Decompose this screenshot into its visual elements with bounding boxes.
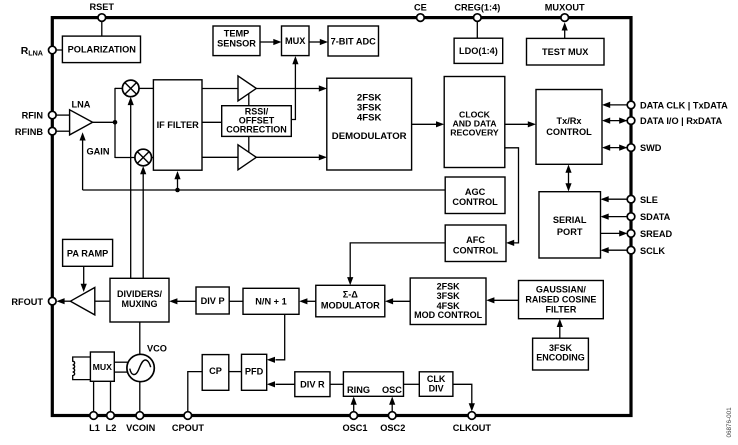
svg-text:4FSK: 4FSK bbox=[357, 113, 382, 124]
box MUX U2 bbox=[282, 26, 310, 56]
pin RFIN bbox=[22, 111, 57, 121]
svg-text:MOD CONTROL: MOD CONTROL bbox=[414, 310, 482, 320]
svg-text:7-BIT ADC: 7-BIT ADC bbox=[331, 36, 376, 46]
svg-text:ENCODING: ENCODING bbox=[536, 353, 585, 363]
amplifier LNA bbox=[70, 110, 93, 135]
pin RFINB bbox=[15, 127, 56, 137]
wire sigma-delta to N/N+1 bbox=[307, 300, 316, 302]
svg-text:Tx/Rx: Tx/Rx bbox=[556, 116, 582, 126]
wire SLE pin to SERIAL PORT bbox=[602, 198, 628, 200]
pin L2 bbox=[106, 412, 117, 433]
svg-text:Σ-Δ: Σ-Δ bbox=[343, 290, 359, 300]
pin MUXOUT bbox=[545, 3, 585, 22]
wire RLNA to POLARIZATION bbox=[56, 49, 63, 51]
svg-text:PA RAMP: PA RAMP bbox=[67, 248, 108, 258]
pin OSC2 bbox=[380, 412, 405, 433]
pin RLNA bbox=[21, 46, 56, 58]
pin SLE bbox=[627, 195, 658, 205]
pin CLKOUT bbox=[453, 412, 492, 433]
wire RING OSC to CLK DIV bbox=[404, 383, 420, 385]
svg-text:OSC1: OSC1 bbox=[342, 423, 367, 433]
box 3FSK ENCODING bbox=[533, 338, 589, 370]
pin SCLK bbox=[627, 246, 665, 256]
node AGC line junction bbox=[175, 188, 180, 193]
svg-text:AFC: AFC bbox=[466, 235, 485, 245]
svg-text:DATA I/O | RxDATA: DATA I/O | RxDATA bbox=[640, 116, 723, 126]
svg-text:RSET: RSET bbox=[90, 2, 115, 12]
wire DIVIDERS/MUXING to PA bbox=[95, 300, 110, 302]
wire VCO to DIVIDERS/MUXING bbox=[139, 322, 141, 354]
pin SDATA bbox=[627, 212, 670, 222]
svg-text:DIV: DIV bbox=[429, 383, 444, 393]
pin CPOUT bbox=[172, 412, 205, 433]
svg-text:SWD: SWD bbox=[640, 143, 662, 153]
wire TEMP SENSOR to MUX bbox=[260, 41, 275, 43]
amplifier A2 limiter bbox=[238, 145, 256, 170]
svg-text:CREG(1:4): CREG(1:4) bbox=[454, 3, 500, 13]
box RING OSC bbox=[343, 372, 403, 397]
wire TEST MUX to MUXOUT bbox=[564, 30, 566, 38]
svg-text:L1: L1 bbox=[89, 423, 100, 433]
svg-text:DIV R: DIV R bbox=[300, 380, 325, 390]
svg-text:SDATA: SDATA bbox=[640, 212, 671, 222]
box AFC CONTROL bbox=[445, 225, 506, 262]
wire PFD to CP bbox=[229, 371, 242, 373]
wire mixer M1 to IF FILTER bbox=[139, 87, 154, 89]
box N/N + 1 bbox=[243, 288, 299, 314]
pin CREG(1:4) bbox=[454, 3, 500, 22]
wire LO to mixer M2 bbox=[142, 173, 144, 279]
svg-text:DEMODULATOR: DEMODULATOR bbox=[332, 131, 407, 142]
box POLARIZATION bbox=[62, 36, 140, 63]
svg-text:RFINB: RFINB bbox=[15, 127, 43, 137]
pin VCOIN bbox=[126, 412, 155, 433]
wire RFINB to LNA bbox=[56, 130, 70, 132]
wire Tx/Rx CONTROL to SERIAL PORT bbox=[568, 170, 570, 186]
pin DATA I/O | RxDATA bbox=[627, 116, 722, 126]
svg-text:SCLK: SCLK bbox=[640, 246, 665, 256]
wire DIV R to PFD bbox=[276, 383, 295, 385]
svg-text:SENSOR: SENSOR bbox=[217, 39, 256, 49]
svg-text:MUX: MUX bbox=[285, 36, 306, 46]
wire OSC1 to RING OSC bbox=[353, 404, 355, 412]
oscillator VCO bbox=[127, 354, 154, 381]
wire limiter A2 to DEMODULATOR bbox=[256, 156, 319, 158]
box 2FSK 3FSK 4FSK MOD CONTROL bbox=[410, 278, 486, 325]
svg-text:CONTROL: CONTROL bbox=[452, 197, 498, 207]
svg-text:MUXING: MUXING bbox=[122, 299, 158, 309]
amplifier PA bbox=[70, 288, 94, 315]
svg-text:OSC: OSC bbox=[382, 385, 402, 395]
wire RSSI to limiter A1 bbox=[248, 94, 250, 107]
svg-text:GAUSSIAN/: GAUSSIAN/ bbox=[536, 284, 587, 294]
svg-text:VCOIN: VCOIN bbox=[126, 423, 155, 433]
wire L1 to MUX bbox=[93, 381, 95, 411]
wire DEMODULATOR to CLOCK AND DATA RECOVERY bbox=[412, 123, 438, 125]
pin RSET bbox=[90, 2, 115, 21]
wire PA RAMP to PA bbox=[83, 266, 85, 284]
wire DIV P to DIVIDERS/MUXING bbox=[177, 300, 196, 302]
pin L1 bbox=[89, 412, 100, 433]
wire RSSI to MUX bbox=[291, 63, 295, 120]
svg-text:CORRECTION: CORRECTION bbox=[226, 124, 287, 134]
box DIV R bbox=[295, 372, 330, 397]
svg-text:POLARIZATION: POLARIZATION bbox=[68, 45, 137, 55]
svg-text:SREAD: SREAD bbox=[640, 229, 673, 239]
svg-text:06876-001: 06876-001 bbox=[726, 407, 733, 438]
wire AGC to LNA gain bbox=[82, 140, 84, 190]
wire RFIN to LNA bbox=[56, 114, 70, 116]
wire DIV R to RING OSC bbox=[330, 383, 343, 385]
box TEMP SENSOR bbox=[213, 26, 260, 56]
wire MUX to VCO upper bbox=[114, 361, 127, 363]
box CLK DIV bbox=[419, 372, 453, 397]
pin RFOUT bbox=[11, 297, 56, 307]
wire IF FILTER to RSSI bbox=[202, 121, 222, 123]
box RSSI/OFFSET CORRECTION bbox=[222, 106, 292, 137]
svg-text:MUXOUT: MUXOUT bbox=[545, 3, 585, 13]
box DIVIDERS/MUXING bbox=[110, 278, 169, 322]
wire AGC CONTROL feedback line bbox=[83, 189, 446, 191]
wire AGC to IF FILTER bbox=[177, 179, 179, 191]
box AGC CONTROL bbox=[445, 177, 505, 214]
wire CLK DIV to CLKOUT bbox=[453, 384, 472, 404]
box GAUSSIAN/RAISED COSINE FILTER bbox=[519, 281, 604, 319]
svg-text:RLNA: RLNA bbox=[21, 46, 43, 58]
svg-text:MODULATOR: MODULATOR bbox=[321, 300, 380, 310]
svg-text:CPOUT: CPOUT bbox=[172, 423, 205, 433]
wire to mixer M2 bbox=[115, 157, 136, 159]
wire N/N+1 to PFD bbox=[276, 314, 285, 360]
wire SCLK pin to SERIAL PORT bbox=[602, 249, 628, 251]
pin CE bbox=[414, 3, 427, 22]
svg-text:CE: CE bbox=[414, 3, 427, 13]
svg-text:CONTROL: CONTROL bbox=[546, 127, 592, 137]
svg-text:CONTROL: CONTROL bbox=[453, 246, 499, 256]
wire SERIAL PORT to SREAD pin bbox=[601, 232, 621, 234]
wire VCOIN to VCO bbox=[139, 382, 141, 412]
svg-text:TEMP: TEMP bbox=[224, 29, 250, 39]
svg-text:RAISED COSINE: RAISED COSINE bbox=[525, 294, 596, 304]
svg-text:3FSK: 3FSK bbox=[549, 343, 573, 353]
wire 3FSK ENCODING to GAUSSIAN FILTER bbox=[559, 327, 561, 338]
mixer M2 bbox=[135, 149, 152, 166]
wire CREG to LDO bbox=[476, 22, 478, 39]
box PFD bbox=[242, 354, 267, 390]
box TEST MUX bbox=[527, 38, 605, 65]
svg-text:SLE: SLE bbox=[640, 195, 658, 205]
wire MOD CONTROL to sigma-delta bbox=[393, 300, 410, 302]
box SERIAL PORT bbox=[539, 192, 601, 258]
wire AFC CONTROL to sigma-delta modulator bbox=[350, 243, 445, 279]
svg-text:CP: CP bbox=[209, 366, 222, 376]
wire CP to CPOUT bbox=[188, 372, 202, 412]
wire Tx/Rx to DATA CLK pin bbox=[604, 104, 628, 106]
box 7-BIT ADC bbox=[328, 26, 379, 56]
svg-text:DATA CLK | TxDATA: DATA CLK | TxDATA bbox=[640, 100, 728, 110]
svg-text:RFOUT: RFOUT bbox=[11, 297, 43, 307]
amplifier A1 limiter bbox=[238, 76, 256, 101]
wire CLOCK AND DATA RECOVERY to AFC CONTROL bbox=[505, 148, 519, 243]
svg-text:DIV P: DIV P bbox=[201, 296, 225, 306]
wire node vertical to mixers bbox=[114, 88, 116, 158]
pin SREAD bbox=[627, 229, 672, 239]
svg-text:AGC: AGC bbox=[465, 187, 486, 197]
wire to mixer M1 bbox=[115, 87, 123, 89]
wire SDATA pin to SERIAL PORT bbox=[602, 216, 628, 218]
wire RSSI to limiter A2 bbox=[248, 136, 250, 152]
svg-text:RECOVERY: RECOVERY bbox=[450, 127, 499, 137]
wire GAUSSIAN FILTER to MOD CONTROL bbox=[494, 299, 519, 301]
wire L2 to MUX bbox=[110, 381, 112, 411]
svg-text:OSC2: OSC2 bbox=[380, 423, 405, 433]
box DEMODULATOR bbox=[327, 78, 412, 170]
box CLOCK AND DATA RECOVERY bbox=[444, 77, 505, 168]
svg-text:MUX: MUX bbox=[93, 362, 113, 372]
inductor tank coil bbox=[73, 357, 91, 380]
svg-text:DIVIDERS/: DIVIDERS/ bbox=[117, 289, 163, 299]
node LNA output junction bbox=[113, 120, 118, 125]
svg-text:CLK: CLK bbox=[427, 374, 446, 384]
wire mixer M2 to IF FILTER bbox=[151, 157, 154, 159]
pin SWD bbox=[627, 143, 662, 153]
wire limiter A1 to DEMODULATOR bbox=[256, 88, 319, 90]
svg-text:TEST MUX: TEST MUX bbox=[542, 47, 589, 57]
box DIV P bbox=[196, 287, 229, 314]
wire IF FILTER to limiter A2 bbox=[202, 156, 238, 158]
svg-text:PORT: PORT bbox=[557, 227, 583, 237]
svg-text:LNA: LNA bbox=[72, 99, 91, 109]
box PA RAMP bbox=[63, 239, 113, 266]
svg-text:N/N + 1: N/N + 1 bbox=[255, 297, 286, 307]
svg-text:IF FILTER: IF FILTER bbox=[157, 120, 200, 130]
svg-text:L2: L2 bbox=[106, 423, 117, 433]
wire Tx/Rx to DATA I/O pin bbox=[604, 120, 628, 122]
svg-text:VCO: VCO bbox=[147, 344, 167, 354]
svg-text:CLKOUT: CLKOUT bbox=[453, 423, 492, 433]
pin DATA CLK | TxDATA bbox=[627, 100, 728, 110]
wire Tx/Rx to SWD pin bbox=[604, 147, 628, 149]
wire CLOCK AND DATA RECOVERY to Tx/Rx CONTROL bbox=[505, 123, 530, 125]
box Tx/Rx CONTROL bbox=[536, 90, 602, 165]
box CP charge pump bbox=[202, 355, 229, 391]
wire OSC2 to RING OSC bbox=[391, 404, 393, 412]
wire MUX to 7-BIT ADC bbox=[309, 41, 321, 43]
wire LNA output to node bbox=[93, 121, 115, 123]
svg-text:FILTER: FILTER bbox=[545, 304, 576, 314]
wire N/N+1 to DIV P bbox=[229, 300, 243, 302]
box MUX U3 tank select bbox=[90, 352, 114, 381]
wire IF FILTER to limiter A1 bbox=[202, 88, 238, 90]
svg-text:LDO(1:4): LDO(1:4) bbox=[459, 46, 498, 56]
chip outer border bbox=[52, 18, 631, 416]
pin OSC1 bbox=[342, 412, 367, 433]
box LDO(1:4) bbox=[454, 38, 503, 63]
mixer M1 bbox=[122, 80, 139, 97]
wire PA to RFOUT bbox=[64, 300, 71, 302]
svg-text:RFIN: RFIN bbox=[22, 111, 44, 121]
box IF FILTER bbox=[153, 80, 202, 170]
svg-text:GAIN: GAIN bbox=[87, 147, 110, 157]
svg-text:3FSK: 3FSK bbox=[437, 291, 461, 301]
wire LO to mixer M1 bbox=[130, 104, 132, 279]
svg-text:SERIAL: SERIAL bbox=[553, 215, 587, 225]
wire RSET to POLARIZATION bbox=[101, 22, 103, 37]
wire MUX to VCO lower bbox=[114, 371, 127, 373]
svg-text:PFD: PFD bbox=[245, 366, 264, 376]
box sigma-delta MODULATOR bbox=[316, 285, 385, 317]
svg-text:RING: RING bbox=[347, 385, 370, 395]
